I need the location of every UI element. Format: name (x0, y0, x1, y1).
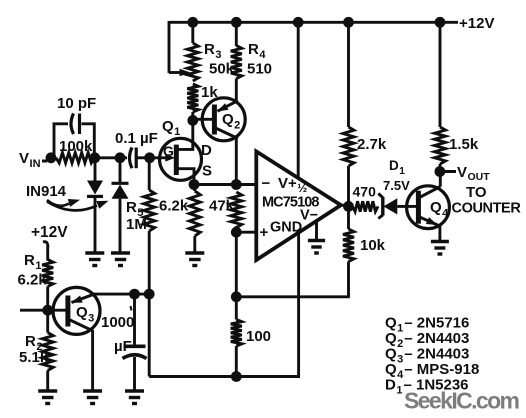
resistor 6.2k (Q1 source) (193, 185, 196, 192)
wire 10k bottom to 100 top (236, 295, 349, 298)
svg-text:100k: 100k (59, 138, 93, 155)
capacitor 0.1uF (130, 148, 133, 169)
resistor 100k (56, 153, 95, 163)
resistor 47k (231, 192, 242, 228)
wire Q1 source to comparator minus input (194, 183, 258, 186)
wire rail to R4 top (235, 22, 238, 46)
wire V+ pin from rail (297, 22, 300, 179)
diode D-IN914a (to ground) (94, 158, 97, 181)
svg-text:10k: 10k (360, 237, 386, 254)
ground of 6.2k (185, 251, 204, 255)
wire 1k to node (191, 112, 194, 121)
svg-text:1.5k: 1.5k (449, 136, 479, 153)
node VIN (46, 152, 57, 163)
resistor R2 5.1k (46, 310, 49, 332)
wire Q3 emitter to cap node (94, 293, 150, 296)
transistor Q4 (MPS-918 NPN) (407, 186, 450, 229)
svg-text:IN914: IN914 (26, 183, 67, 200)
node rail-1.5k (435, 17, 446, 28)
resistor 1.5k (439, 22, 442, 127)
svg-text:10 pF: 10 pF (57, 95, 96, 112)
svg-text:TO: TO (466, 184, 487, 201)
svg-text:+12V: +12V (31, 224, 68, 241)
svg-text:1000: 1000 (101, 314, 134, 331)
node R5 bottom (144, 289, 155, 300)
wire VOUT stub (440, 170, 456, 173)
resistor R1 6.2k (42, 260, 53, 287)
diode D-IN914b (to ground, reversed) (119, 158, 122, 184)
wire stub left of base node (20, 309, 48, 312)
node rail-R3 (187, 17, 198, 28)
svg-text:5.1k: 5.1k (19, 349, 49, 366)
svg-text:µF: µF (114, 338, 132, 355)
ground of 1000uF (125, 389, 144, 393)
callout arrows IN914 (47, 200, 69, 206)
resistor R4 510 (231, 46, 242, 79)
ground of R2 (38, 389, 57, 393)
resistor 1k (187, 84, 198, 112)
svg-text:S: S (202, 163, 212, 180)
svg-text:G: G (163, 143, 174, 159)
ground of Q4 emitter (431, 240, 449, 244)
transistor Q3 (2N4403 PNP) (53, 287, 100, 334)
svg-text:6.2k: 6.2k (18, 272, 48, 289)
svg-text:470: 470 (353, 184, 377, 200)
wire bottom return (149, 375, 298, 378)
wire plus input (236, 231, 257, 234)
svg-text:7.5V: 7.5V (383, 178, 410, 193)
svg-text:−: − (262, 175, 271, 192)
wire rail to R3 top (191, 22, 194, 43)
node gate / R5 junction (144, 152, 155, 163)
svg-text:SeekIC.com: SeekIC.com (404, 388, 520, 414)
node 100 bottom (231, 371, 242, 382)
node source-6.2k (189, 179, 200, 190)
node rail-R4 (231, 17, 242, 28)
capacitor 1000uF electrolytic (133, 294, 136, 346)
wire R1 to node (46, 287, 49, 312)
node cap 1000uF (129, 289, 140, 300)
node 100 top (231, 291, 242, 302)
wire GND pin down (297, 232, 300, 378)
svg-text:100: 100 (246, 328, 271, 345)
wire V- pin to ground (315, 221, 318, 241)
transistor Q1 (2N5716 JFET) (160, 138, 202, 180)
node 47k top (231, 179, 242, 190)
wire +12V hook to R1 (43, 242, 48, 247)
node R1-R2-base (42, 305, 53, 316)
resistor R5 1M (148, 158, 151, 190)
svg-text:2.7k: 2.7k (357, 136, 387, 153)
wire +12V supply rail (169, 21, 458, 24)
resistor 470 (353, 201, 379, 211)
resistor R3 50k (potentiometer) (187, 43, 198, 81)
node comparator output (343, 201, 354, 212)
ground of Q3 collector (83, 389, 102, 393)
node 100k-diode junction (89, 152, 100, 163)
svg-text:6.2k: 6.2k (159, 198, 189, 215)
node 47k bottom / plus input (231, 227, 242, 238)
svg-text:COUNTER: COUNTER (452, 201, 522, 217)
ground of diode b (111, 251, 130, 255)
op-amp U1 MC75108 comparator (256, 151, 341, 260)
diode D1 zener 7.5V (381, 197, 384, 216)
svg-text:47k: 47k (209, 198, 235, 215)
node Q1-drain / Q2-base junction (187, 115, 198, 126)
svg-text:510: 510 (247, 61, 272, 78)
transistor Q2 (2N4403 PNP) (202, 98, 245, 141)
resistor 100 (235, 297, 238, 320)
wire 47k node down to 100 (235, 232, 238, 297)
node VOUT (435, 166, 446, 177)
capacitor 10pF bridge (54, 124, 68, 158)
node rail-Vplus (293, 17, 304, 28)
node rail-2.7k (343, 17, 354, 28)
wire output node (341, 204, 349, 208)
ground of V- pin (308, 239, 325, 243)
svg-text:D: D (201, 142, 212, 159)
resistor 2.7k (347, 22, 350, 127)
svg-text:1M: 1M (126, 216, 147, 233)
wiper arrow of R3 (169, 71, 182, 74)
wire R4 to Q2 emitter (235, 79, 238, 101)
svg-text:+12V: +12V (459, 15, 494, 32)
wire Q2 collector down (235, 138, 238, 186)
svg-text:+: + (260, 224, 269, 241)
ground of diode a (85, 251, 104, 255)
node diode2 junction (115, 152, 126, 163)
svg-text:0.1 µF: 0.1 µF (115, 130, 158, 147)
resistor 10k (347, 206, 350, 229)
wire to diode 2 and cap (95, 156, 127, 159)
